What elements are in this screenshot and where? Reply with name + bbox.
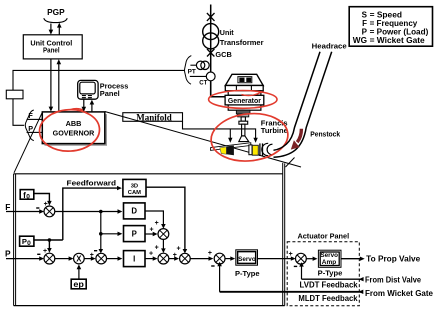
svg-text:X: X — [76, 255, 82, 264]
block Servo Amp (double border) — [318, 250, 341, 267]
summing junction droop — [96, 253, 107, 264]
breaker GCB — [207, 49, 232, 59]
wire P output to PD summer — [145, 232, 158, 236]
wire Servo output to actuator summer — [258, 256, 296, 260]
wire PGP to Unit Control Panel (down) — [49, 24, 54, 35]
wire ABB Governor to Process Panel (up) — [90, 100, 95, 112]
wire 3D CAM to cam summer — [146, 187, 187, 253]
brace F/P inputs of governor — [25, 110, 34, 141]
svg-text:CT: CT — [199, 79, 208, 86]
svg-text:Manifold: Manifold — [136, 113, 172, 123]
wire D output to PD summer — [145, 211, 166, 229]
svg-text:P: P — [28, 124, 33, 133]
block ep droop setting — [71, 279, 86, 289]
svg-text:+: + — [90, 252, 94, 259]
svg-text:GOVERNOR: GOVERNOR — [53, 128, 95, 137]
wire tap to P block — [101, 232, 123, 236]
process panel icon (monitor) — [78, 80, 98, 99]
wire manifold to wicket gate servos — [183, 121, 256, 138]
sign minus (LVDT into actuator summer) — [294, 266, 297, 267]
svg-text:P: P — [132, 229, 137, 238]
svg-text:Panel: Panel — [43, 48, 60, 55]
summing junction frequency — [44, 206, 55, 217]
generator housing roof — [225, 74, 263, 85]
wire actuator summer to Servo Amp — [306, 257, 317, 261]
svg-text:To Prop Valve: To Prop Valve — [366, 254, 421, 263]
penstock pipe inner wall — [274, 52, 321, 151]
shaft coupling light — [238, 114, 249, 117]
wire MLDT feedback (from wicket gate) — [217, 262, 363, 294]
svg-text:PT: PT — [188, 68, 197, 75]
unit transformer symbol — [203, 24, 219, 49]
wire bus: top edge of plant wiring running to PT/CT brace — [13, 70, 184, 90]
node P input label — [27, 124, 43, 133]
block ABB GOVERNOR (with shadow) — [42, 112, 107, 146]
svg-text:Feedforward: Feedforward — [67, 178, 117, 187]
shaft stem — [241, 117, 245, 121]
svg-text:+: + — [177, 245, 181, 252]
wire from terminal block down to F/P brace — [13, 99, 24, 126]
svg-text:From Dist Valve: From Dist Valve — [365, 276, 422, 285]
svg-text:From Wicket Gate: From Wicket Gate — [365, 289, 434, 298]
spiral case arcs — [262, 143, 273, 155]
transformer CT (current) — [190, 72, 215, 86]
node F input label — [27, 111, 43, 120]
servo drop arrow right — [253, 138, 257, 143]
svg-text:ep: ep — [73, 280, 84, 289]
svg-text:Panel: Panel — [100, 89, 120, 98]
summing junction PD — [158, 229, 169, 240]
summing junction power — [44, 253, 55, 264]
svg-text:+: + — [208, 250, 212, 257]
wicket gate yellow left — [220, 147, 227, 154]
penstock pipe outer wall — [274, 52, 332, 158]
junction dot P0 line — [48, 238, 52, 242]
node P input — [5, 248, 44, 260]
wire final summer to Servo — [225, 256, 235, 260]
wire cam summer to final summer — [190, 256, 213, 260]
block 3D CAM — [123, 179, 146, 196]
component terminal block on left wire — [6, 90, 23, 99]
wire Process Panel to ABB Governor (down) — [82, 99, 87, 111]
wire P0 to power summer and feedforward — [34, 240, 63, 253]
actuator panel dashed box — [287, 242, 359, 306]
generator upper band — [225, 86, 263, 91]
gate black wedge — [226, 146, 234, 156]
block P — [124, 226, 146, 242]
wire I output to PID summer — [145, 256, 158, 260]
svg-text:Transformer: Transformer — [220, 38, 264, 47]
svg-text:Turbine: Turbine — [261, 126, 288, 135]
label Unit Transformer — [220, 28, 264, 47]
servo drop arrow left — [228, 129, 232, 143]
svg-text:+: + — [150, 226, 154, 233]
svg-text:D: D — [131, 207, 137, 216]
diagonal callout line left (governor to block diagram) — [14, 112, 42, 173]
svg-text:F: F — [28, 111, 33, 120]
wire frequency error down-tap — [99, 212, 104, 254]
svg-text:I: I — [133, 254, 135, 263]
block Servo (double border) — [236, 250, 258, 265]
sign minus (P) — [37, 254, 40, 255]
legend box — [349, 7, 432, 47]
wire Unit Control Panel to ABB Governor (down) — [49, 59, 54, 112]
svg-text:P-Type: P-Type — [318, 268, 343, 277]
block diagram panel bottom edge — [14, 305, 285, 307]
svg-text:+: + — [173, 252, 177, 259]
svg-text:+: + — [155, 244, 159, 251]
svg-text:WG: WG — [353, 36, 367, 45]
svg-text:Servo: Servo — [238, 256, 256, 263]
svg-text:GCB: GCB — [215, 50, 232, 59]
turbine head cover platform — [211, 143, 251, 151]
draft tube bars — [260, 143, 263, 156]
gate stem box — [249, 145, 252, 155]
svg-text:P: P — [5, 248, 11, 258]
wire feedforward (P0 up to 3D CAM) — [63, 186, 122, 240]
wire ABB Governor to Unit Control Panel (up) — [57, 59, 62, 112]
red ellipse around Generator — [209, 91, 277, 109]
diagonal callout floor line (governor to tailrace) — [105, 112, 301, 168]
wire droop summer to I block — [107, 256, 123, 260]
wire PID summer to cam summer — [169, 256, 179, 260]
brace under PGP — [44, 18, 67, 22]
junction dot P-box tap — [99, 232, 103, 236]
svg-text:0: 0 — [27, 240, 31, 247]
shaft flange — [239, 121, 248, 124]
svg-text:Generator: Generator — [228, 96, 261, 105]
generator body — [228, 91, 261, 110]
summing junction final — [214, 253, 225, 264]
maroon flow arrow in penstock — [291, 129, 302, 150]
svg-text:CAM: CAM — [128, 190, 141, 196]
shaft coupling dark — [236, 110, 250, 114]
svg-text:Penstock: Penstock — [310, 131, 340, 138]
svg-text:ABB: ABB — [66, 119, 82, 128]
block I — [124, 251, 146, 267]
svg-text:+: + — [289, 251, 293, 258]
wire power error to multiplier — [55, 256, 74, 260]
tailrace tick — [286, 158, 295, 168]
wire Unit Control Panel to PGP (up) — [57, 23, 62, 35]
svg-text:0: 0 — [26, 194, 30, 201]
svg-text:Headrace: Headrace — [312, 41, 347, 50]
transformer PT (potential) — [188, 61, 210, 75]
red ellipse around ABB GOVERNOR — [38, 108, 100, 152]
turbine cone — [239, 136, 249, 142]
svg-text:LVDT Feedback: LVDT Feedback — [300, 280, 359, 289]
breaker (disconnect X) top — [207, 13, 215, 21]
block Unit Control Panel — [23, 35, 82, 59]
svg-text:+: + — [149, 251, 153, 258]
block diagram outer panel left edge (double) — [14, 174, 16, 306]
turbine shaft — [242, 124, 245, 136]
wire PD summer down to PID summer — [161, 239, 166, 253]
svg-text:Unit Control: Unit Control — [30, 40, 72, 47]
block diagram panel top edge — [14, 173, 283, 175]
wire Servo Amp output to prop valve — [341, 257, 365, 261]
brace PT/CT bundle — [185, 56, 192, 85]
wire frequency error row to D — [55, 209, 123, 213]
block f0 reference — [20, 190, 34, 201]
svg-text:Unit: Unit — [220, 28, 234, 37]
summing junction PID — [158, 253, 169, 264]
wire LVDT feedback (from dist valve) — [299, 262, 363, 281]
block D — [124, 203, 146, 219]
junction dot F row — [99, 210, 103, 214]
block Manifold — [123, 113, 183, 123]
block diagram outer panel right edge (double) — [283, 163, 285, 306]
svg-text:MLDT Feedback: MLDT Feedback — [298, 294, 358, 303]
svg-text:PGP: PGP — [47, 7, 65, 17]
block Generator label — [225, 95, 264, 105]
label Process Panel — [100, 82, 129, 98]
sign minus (frequency error into droop summer) — [94, 250, 97, 251]
svg-text:+: + — [155, 220, 159, 227]
wire f0 to frequency summer — [34, 194, 52, 206]
sign minus (feedback into final summer) — [211, 265, 214, 266]
svg-text:F: F — [5, 202, 10, 212]
svg-text:= Wicket Gate: = Wicket Gate — [370, 36, 426, 45]
svg-text:Actuator Panel: Actuator Panel — [297, 232, 349, 241]
sign minus (F) — [36, 207, 39, 208]
summing junction actuator — [296, 253, 307, 264]
red ellipse around Francis Turbine — [209, 110, 290, 165]
wire feeder into generator — [211, 81, 225, 97]
block P0 reference — [20, 236, 34, 247]
svg-text:Amp: Amp — [322, 259, 337, 266]
node F input — [5, 202, 44, 214]
wire ep to multiplier — [77, 264, 82, 279]
svg-text:P-Type: P-Type — [235, 269, 260, 278]
wire multiplier to droop summer — [84, 256, 96, 260]
multiplier X (droop) — [74, 253, 85, 264]
svg-text:3D: 3D — [131, 183, 138, 189]
wire grid feeder vertical — [210, 5, 212, 97]
wicket gate yellow right — [252, 145, 258, 155]
label Francis Turbine — [261, 119, 288, 135]
summing junction cam — [180, 253, 191, 264]
